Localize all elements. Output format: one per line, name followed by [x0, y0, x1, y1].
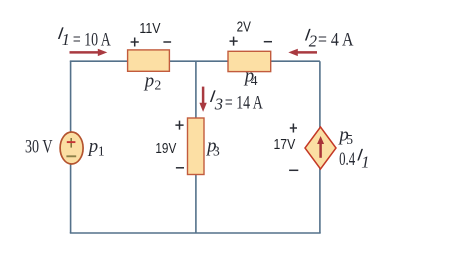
svg-text:p: p — [87, 136, 98, 157]
wire middle vertical — [195, 61, 197, 233]
polarity p2 minus — [163, 41, 171, 43]
svg-text:3: 3 — [214, 94, 223, 113]
svg-text:5: 5 — [346, 132, 353, 147]
svg-text:2: 2 — [155, 78, 162, 93]
polarity p3 minus — [176, 167, 184, 169]
label p4 — [243, 66, 258, 89]
polarity p4 minus — [264, 41, 272, 43]
svg-text:19V: 19V — [155, 140, 176, 157]
voltage source p1 (30 V) — [60, 132, 83, 164]
wire left vertical — [70, 61, 72, 233]
svg-text:0.4: 0.4 — [339, 149, 355, 170]
wire right vertical — [319, 61, 321, 233]
current arrow I3 — [199, 87, 206, 112]
label p5 — [337, 124, 353, 147]
svg-text:2V: 2V — [237, 19, 251, 36]
element p3 box — [188, 118, 205, 175]
svg-text:4: 4 — [251, 73, 258, 88]
svg-text:= 14 A: = 14 A — [225, 92, 263, 113]
polarity p4 plus — [230, 37, 238, 46]
label p1 — [87, 136, 105, 159]
svg-text:1: 1 — [62, 30, 70, 49]
svg-text:1: 1 — [98, 144, 105, 159]
polarity p3 plus — [175, 121, 183, 130]
polarity p5 minus — [289, 169, 298, 171]
dependent source p5 (diamond) — [305, 127, 336, 169]
svg-text:3: 3 — [213, 143, 220, 158]
wire bottom horizontal — [70, 232, 321, 234]
svg-text:11V: 11V — [139, 20, 160, 37]
current arrow I1 — [70, 49, 108, 56]
svg-text:2: 2 — [309, 32, 317, 51]
current arrow I2 — [288, 49, 317, 56]
svg-text:30 V: 30 V — [25, 137, 53, 158]
label p3 — [205, 136, 220, 159]
element p2 box — [128, 50, 170, 71]
svg-text:= 4 A: = 4 A — [318, 29, 354, 50]
svg-text:17V: 17V — [274, 136, 296, 153]
label I1 = 10 A — [57, 24, 111, 50]
label p2 — [143, 70, 161, 92]
polarity p5 plus — [290, 124, 297, 133]
label I3 = 14 A — [209, 87, 263, 113]
label I2 = 4 A — [304, 25, 354, 50]
label 0.4 I1 — [339, 145, 369, 171]
svg-text:1: 1 — [361, 152, 369, 171]
svg-text:p: p — [143, 70, 154, 91]
wire top horizontal — [70, 60, 320, 62]
element p4 box — [228, 51, 271, 71]
polarity p2 plus — [131, 38, 139, 47]
svg-text:= 10 A: = 10 A — [73, 30, 111, 51]
